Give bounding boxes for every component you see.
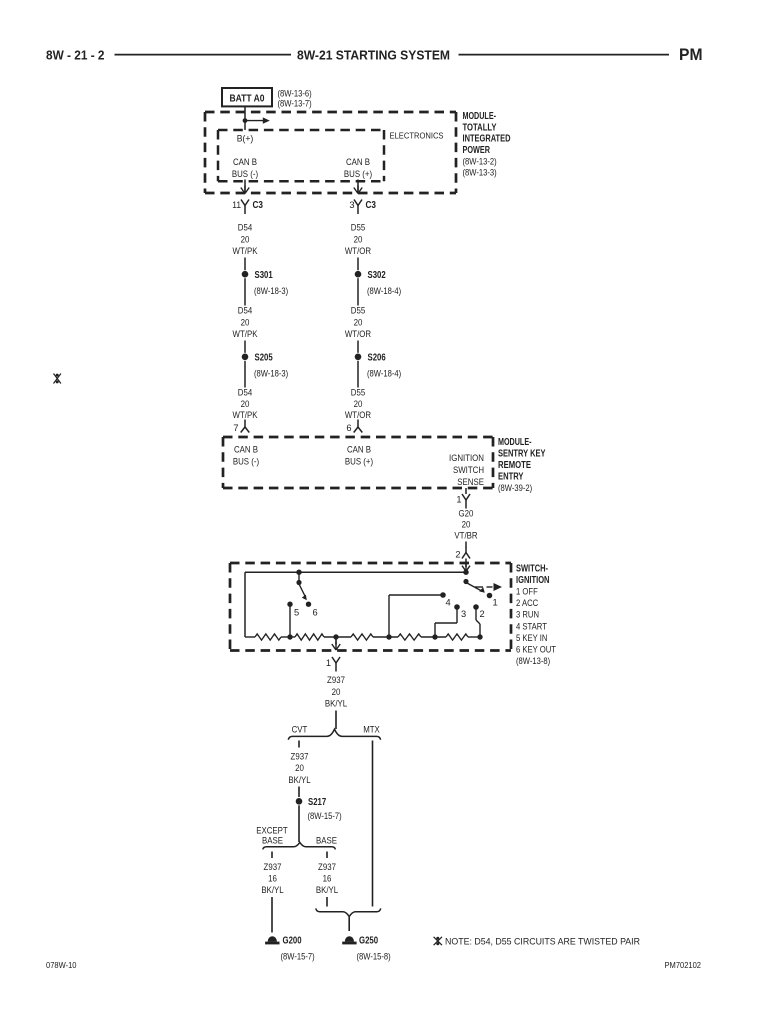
svg-text:S206: S206 — [368, 352, 387, 363]
svg-text:20: 20 — [295, 763, 304, 774]
svg-text:BK/YL: BK/YL — [288, 775, 311, 786]
svg-text:3: 3 — [349, 200, 354, 210]
svg-text:SENSE: SENSE — [457, 477, 484, 488]
svg-text:BUS (+): BUS (+) — [345, 456, 373, 467]
svg-text:MTX: MTX — [363, 724, 380, 735]
svg-text:G250: G250 — [359, 936, 378, 947]
svg-text:(8W-13-2): (8W-13-2) — [463, 156, 497, 166]
svg-text:6: 6 — [313, 607, 318, 617]
svg-text:TOTALLY: TOTALLY — [463, 122, 497, 133]
svg-text:BK/YL: BK/YL — [316, 885, 339, 896]
svg-text:D54: D54 — [238, 388, 253, 399]
svg-text:CAN B: CAN B — [234, 444, 258, 455]
svg-text:BASE: BASE — [316, 836, 337, 847]
svg-text:ENTRY: ENTRY — [498, 471, 524, 482]
svg-text:078W-10: 078W-10 — [46, 961, 77, 970]
svg-text:(8W-13-3): (8W-13-3) — [463, 168, 497, 178]
svg-text:B(+): B(+) — [237, 134, 254, 145]
svg-text:INTEGRATED: INTEGRATED — [463, 134, 511, 145]
svg-text:WT/PK: WT/PK — [233, 329, 258, 340]
svg-text:BASE: BASE — [262, 836, 283, 847]
svg-text:4: 4 — [446, 597, 451, 607]
svg-text:D55: D55 — [351, 388, 365, 399]
svg-text:20: 20 — [462, 520, 471, 531]
svg-text:(8W-15-8): (8W-15-8) — [357, 951, 391, 961]
svg-text:20: 20 — [241, 399, 250, 410]
svg-text:(8W-18-4): (8W-18-4) — [367, 368, 401, 378]
svg-text:S301: S301 — [255, 270, 274, 281]
svg-text:BUS (-): BUS (-) — [233, 456, 259, 467]
svg-text:5: 5 — [294, 607, 299, 617]
svg-text:(8W-39-2): (8W-39-2) — [498, 483, 532, 493]
svg-text:(8W-18-3): (8W-18-3) — [254, 368, 288, 378]
svg-text:IGNITION: IGNITION — [449, 453, 484, 464]
svg-text:3 RUN: 3 RUN — [516, 610, 539, 621]
svg-text:5 KEY IN: 5 KEY IN — [516, 633, 547, 644]
svg-text:8W - 21 - 2: 8W - 21 - 2 — [46, 48, 105, 63]
svg-text:6 KEY OUT: 6 KEY OUT — [516, 645, 556, 656]
svg-text:4 START: 4 START — [516, 621, 547, 632]
svg-text:WT/OR: WT/OR — [345, 329, 371, 340]
svg-text:D54: D54 — [238, 306, 253, 317]
svg-text:BUS (-): BUS (-) — [232, 169, 258, 180]
svg-text:SENTRY KEY: SENTRY KEY — [498, 448, 546, 459]
svg-text:7: 7 — [233, 423, 238, 433]
svg-text:WT/OR: WT/OR — [345, 410, 371, 421]
svg-text:1: 1 — [456, 494, 461, 504]
svg-text:CAN B: CAN B — [233, 157, 257, 168]
svg-text:S302: S302 — [368, 270, 387, 281]
svg-text:8W-21 STARTING SYSTEM: 8W-21 STARTING SYSTEM — [297, 48, 450, 63]
svg-text:REMOTE: REMOTE — [498, 460, 531, 471]
svg-text:(8W-13-8): (8W-13-8) — [516, 656, 550, 666]
svg-text:BK/YL: BK/YL — [325, 699, 348, 710]
svg-text:BUS (+): BUS (+) — [344, 169, 372, 180]
svg-text:MODULE-: MODULE- — [498, 437, 532, 448]
svg-text:CAN B: CAN B — [347, 444, 371, 455]
svg-text:6: 6 — [346, 423, 351, 433]
svg-text:SWITCH-: SWITCH- — [516, 564, 548, 575]
svg-text:Z937: Z937 — [318, 862, 336, 873]
svg-text:1: 1 — [493, 597, 498, 607]
svg-text:G200: G200 — [283, 936, 302, 947]
svg-text:(8W-15-7): (8W-15-7) — [308, 811, 342, 821]
svg-text:D55: D55 — [351, 223, 365, 234]
svg-text:(8W-13-6): (8W-13-6) — [278, 88, 312, 98]
svg-text:VT/BR: VT/BR — [454, 531, 477, 542]
svg-text:C3: C3 — [253, 200, 264, 211]
svg-text:16: 16 — [268, 874, 277, 885]
svg-text:MODULE-: MODULE- — [463, 111, 497, 122]
svg-text:C3: C3 — [366, 200, 377, 211]
svg-text:20: 20 — [354, 399, 363, 410]
svg-text:2: 2 — [455, 549, 460, 559]
svg-text:16: 16 — [323, 874, 332, 885]
svg-text:CVT: CVT — [292, 724, 308, 735]
svg-text:WT/PK: WT/PK — [233, 410, 258, 421]
svg-text:WT/OR: WT/OR — [345, 246, 371, 257]
svg-text:D55: D55 — [351, 306, 365, 317]
svg-text:S205: S205 — [255, 352, 274, 363]
svg-text:BATT A0: BATT A0 — [230, 93, 265, 104]
svg-text:20: 20 — [354, 317, 363, 328]
svg-text:20: 20 — [241, 234, 250, 245]
svg-text:POWER: POWER — [463, 145, 491, 156]
svg-text:PM: PM — [679, 46, 703, 64]
svg-text:1 OFF: 1 OFF — [516, 587, 538, 598]
svg-text:Z937: Z937 — [291, 751, 309, 762]
svg-text:11: 11 — [232, 200, 241, 210]
svg-text:1: 1 — [326, 658, 331, 668]
svg-text:CAN B: CAN B — [346, 157, 370, 168]
svg-text:Z937: Z937 — [327, 675, 345, 686]
svg-text:(8W-18-4): (8W-18-4) — [367, 286, 401, 296]
svg-text:20: 20 — [332, 687, 341, 698]
svg-text:D54: D54 — [238, 223, 253, 234]
svg-text:(8W-13-7): (8W-13-7) — [278, 98, 312, 108]
svg-text:2 ACC: 2 ACC — [516, 598, 538, 609]
svg-text:2: 2 — [480, 609, 485, 619]
svg-text:G20: G20 — [459, 509, 474, 520]
svg-text:BK/YL: BK/YL — [261, 885, 284, 896]
svg-text:Z937: Z937 — [264, 862, 282, 873]
svg-text:SWITCH: SWITCH — [453, 465, 484, 476]
svg-text:20: 20 — [354, 234, 363, 245]
svg-text:IGNITION: IGNITION — [516, 575, 550, 586]
svg-text:WT/PK: WT/PK — [233, 246, 258, 257]
svg-text:(8W-18-3): (8W-18-3) — [254, 286, 288, 296]
svg-text:NOTE: D54, D55 CIRCUITS ARE T: NOTE: D54, D55 CIRCUITS ARE TWISTED PAIR — [445, 937, 640, 948]
svg-text:S217: S217 — [308, 797, 327, 808]
svg-text:3: 3 — [461, 609, 466, 619]
svg-text:ELECTRONICS: ELECTRONICS — [390, 132, 444, 141]
svg-text:(8W-15-7): (8W-15-7) — [281, 951, 315, 961]
svg-text:20: 20 — [241, 317, 250, 328]
svg-text:PM702102: PM702102 — [665, 961, 702, 970]
